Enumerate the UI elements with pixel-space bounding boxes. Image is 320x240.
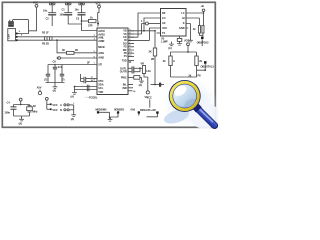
microphone block MK1 (8, 20, 28, 27)
svg-text:XTI: XTI (98, 63, 102, 67)
svg-text:(A): (A) (53, 89, 57, 93)
svg-text:(A): (A) (19, 121, 23, 125)
svg-text:(A): (A) (71, 117, 75, 121)
power flag pair over C2 (49, 3, 55, 5)
svg-text:VCC: VCC (147, 95, 152, 99)
svg-text:0EN/SE0: 0EN/SE0 (114, 108, 125, 112)
power flag (19, 98, 22, 101)
svg-text:VCC: VCC (184, 39, 189, 43)
junction dot on line 2 (56, 39, 58, 41)
svg-text:PWC: PWC (121, 76, 127, 80)
connector J1 (6, 29, 23, 41)
svg-text:(A): (A) (168, 46, 172, 50)
svg-text:2K: 2K (75, 48, 78, 52)
ground (71, 93, 77, 99)
svg-text:TX: TX (162, 31, 165, 35)
svg-text:VCC: VCC (96, 1, 101, 5)
net label flag 2 (131, 108, 141, 116)
resistor R9 (195, 52, 203, 77)
capacitor C12 (128, 68, 140, 73)
svg-text:K: K (183, 21, 185, 25)
wire bus 3 + clock bubble (128, 19, 161, 34)
U2 IN pin stubs (128, 85, 133, 88)
svg-text:2K: 2K (149, 50, 152, 54)
resistor R1 (82, 15, 97, 27)
power flag A5V (37, 86, 42, 95)
svg-text:OUTR: OUTR (120, 70, 127, 74)
VCC header J5 (45, 97, 57, 112)
capacitor C1 (60, 5, 82, 24)
jumper marks (87, 85, 89, 91)
wire bus 1 (128, 13, 161, 37)
svg-text:100n: 100n (5, 111, 11, 115)
svg-text:R0 2D: R0 2D (42, 42, 49, 46)
ground left under U3 (168, 42, 174, 50)
svg-text:RX: RX (162, 11, 166, 15)
svg-text:INR: INR (123, 86, 127, 90)
wire right long vertical (197, 39, 206, 70)
ground AGND (53, 83, 58, 93)
svg-text:OB0/P1K3: OB0/P1K3 (197, 40, 209, 44)
svg-text:MICB: MICB (98, 45, 104, 49)
magnifier lens (173, 84, 196, 107)
ground (19, 119, 24, 125)
magnifier glow (163, 79, 218, 127)
svg-text:A: A (173, 59, 175, 63)
resistor R3 (vertical between lines) (42, 37, 52, 46)
U3 pin labels (162, 11, 185, 35)
wire TXD stub (128, 59, 134, 61)
net label OBD/STAL (201, 61, 215, 70)
resistor R2 (vertical between lines) (42, 30, 49, 40)
phone jack (145, 91, 150, 99)
resistor R10 pull-up (199, 26, 204, 37)
svg-text:GND: GND (179, 26, 185, 30)
svg-text:10n.: 10n. (43, 8, 48, 12)
U2 left pin labels (98, 29, 105, 94)
resistor R7 pull-up (186, 18, 201, 33)
ground (71, 115, 76, 121)
wire top rail (48, 64, 97, 66)
crystal X1 (27, 104, 39, 113)
svg-text:M0DS/M0: M0DS/M0 (96, 108, 107, 112)
svg-text:N: N (60, 108, 62, 112)
svg-text:VCC: VCC (162, 26, 167, 30)
svg-text:(A): (A) (71, 95, 75, 99)
svg-text:27R: 27R (88, 24, 93, 28)
power flag VB+ (186, 4, 205, 26)
svg-text:AIN2: AIN2 (98, 56, 104, 60)
capacitor C2 (43, 5, 56, 26)
U2 right pin labels (120, 29, 128, 90)
svg-text:(7): (7) (62, 77, 65, 81)
svg-text:LC: LC (181, 11, 184, 15)
wire TX pin stub (157, 32, 161, 34)
resistor R6 to ground (128, 76, 144, 87)
svg-text:XTO: XTO (98, 79, 103, 83)
wire ground rail (46, 82, 65, 84)
resistor R4 (62, 48, 97, 54)
ground GND pin U3 (186, 24, 193, 42)
schematic sheet border frame (2, 2, 215, 127)
net label OBD/P1K3 (197, 37, 209, 45)
resistor R8 (163, 52, 175, 77)
wire bus 4 (128, 28, 161, 40)
svg-text:10n: 10n (75, 8, 80, 12)
svg-text:L1MP: L1MP (161, 40, 168, 44)
capacitor C8 (53, 60, 63, 83)
svg-text:AINR: AINR (98, 39, 104, 43)
net label DESAUD (140, 108, 159, 117)
svg-text:VR: VR (141, 62, 145, 66)
svg-text:2R: 2R (151, 57, 154, 61)
svg-text:LO: LO (162, 16, 165, 20)
resistor VR1 (141, 62, 152, 91)
capacitor C6 (left leg) (44, 65, 50, 83)
svg-text:MHz: MHz (32, 109, 38, 113)
U3 name (161, 36, 168, 43)
wire pair into U2 (75, 86, 98, 88)
svg-text:R2 1F: R2 1F (42, 30, 49, 34)
capacitor C4 (5, 101, 17, 115)
capacitor C3 (75, 5, 98, 31)
svg-text:OB0/STAL3: OB0/STAL3 (201, 65, 215, 69)
magnifier handle (196, 106, 215, 125)
svg-text:0A0: 0A0 (131, 108, 136, 112)
jumper row 1 (60, 103, 75, 107)
svg-text:(7): (7) (44, 77, 47, 81)
svg-text:AIN1: AIN1 (98, 51, 104, 55)
svg-text:DESAUD +2R: DESAUD +2R (140, 108, 156, 112)
wire divider bottom (171, 76, 197, 78)
test point TP1 (57, 57, 97, 60)
svg-text:+ Tracks: + Tracks (84, 96, 91, 99)
wire audio line 1 (20, 36, 98, 38)
junction dots on rail (54, 64, 56, 66)
junction dot (81, 20, 83, 22)
capacitor C10 on wire (81, 74, 98, 82)
svg-text:VCC: VCC (33, 1, 38, 5)
svg-text:L2A: L2A (146, 69, 151, 73)
U2 right pin stubs with numbers (128, 29, 134, 64)
svg-text:AX: AX (162, 21, 166, 25)
net label 0EN/SE0 (111, 108, 125, 117)
wire down to input resistor row (57, 40, 67, 53)
power flag VCC (left) (33, 1, 38, 8)
svg-text:HI: HI (182, 16, 185, 20)
capacitor C13 under U3 (177, 36, 182, 45)
svg-text:SCL: SCL (98, 86, 103, 90)
shared ground (108, 116, 113, 121)
wire mic to pin1 (18, 20, 29, 34)
wire divider top (171, 51, 197, 53)
wire audio line 2 (20, 39, 98, 41)
capacitor C11b on wire (81, 80, 98, 84)
svg-text:(A): (A) (139, 83, 143, 87)
magnifier ring (169, 80, 201, 112)
resistor R11 on clock line (149, 30, 157, 85)
power flag VCC over U1 (96, 1, 101, 26)
svg-text:VCC: VCC (52, 108, 57, 112)
power flag vcc small (147, 95, 152, 107)
svg-text:TXD: TXD (122, 59, 127, 63)
wire VCC down to connector area (29, 7, 37, 31)
svg-text:OUTL: OUTL (120, 66, 127, 70)
wire bus 2 (128, 18, 161, 31)
svg-text:TXD: TXD (98, 90, 103, 94)
magnifier shadow (162, 107, 190, 126)
capacitor C7 (right leg) (60, 65, 65, 83)
wire to ground (73, 105, 75, 115)
loop wires (14, 105, 30, 120)
capacitor C11 (128, 66, 142, 70)
svg-text:LIN: LIN (6, 34, 10, 38)
power flag VCC (184, 39, 189, 52)
U2 left pin numbers (94, 35, 96, 82)
svg-text:+B: +B (201, 4, 204, 8)
svg-text:VCC: VCC (52, 103, 57, 107)
wire lower junction (151, 83, 165, 87)
svg-text:A5V: A5V (37, 86, 42, 90)
power flag pair over C3 (79, 3, 85, 5)
net label MODS (96, 108, 110, 117)
jumper row 2 (60, 108, 74, 112)
svg-text:A: A (60, 103, 62, 107)
power flag pair over C1 (65, 3, 71, 5)
